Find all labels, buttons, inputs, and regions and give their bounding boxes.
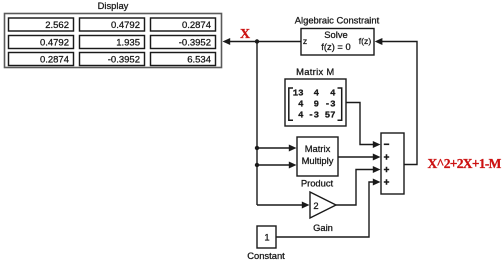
svg-text:z: z: [303, 36, 307, 46]
svg-text:0.4792: 0.4792: [40, 38, 69, 49]
svg-text:Algebraic Constraint: Algebraic Constraint: [295, 15, 380, 26]
svg-text:57: 57: [325, 110, 336, 120]
svg-text:X^2+2X+1-M: X^2+2X+1-M: [428, 156, 502, 171]
svg-text:4: 4: [314, 89, 320, 99]
svg-text:f(z) = 0: f(z) = 0: [321, 41, 350, 52]
svg-text:1: 1: [264, 232, 269, 243]
svg-text:Constant: Constant: [247, 250, 285, 261]
svg-text:-0.3952: -0.3952: [108, 55, 140, 66]
svg-text:Product: Product: [301, 178, 334, 189]
svg-text:0.2874: 0.2874: [40, 55, 69, 66]
svg-text:2.562: 2.562: [45, 20, 69, 31]
svg-text:1.935: 1.935: [116, 38, 140, 49]
svg-text:Multiply: Multiply: [302, 155, 334, 166]
svg-text:0.2874: 0.2874: [182, 20, 211, 31]
svg-text:13: 13: [293, 89, 304, 99]
svg-text:4: 4: [330, 89, 336, 99]
svg-text:4: 4: [298, 100, 304, 110]
svg-text:-0.3952: -0.3952: [179, 38, 211, 49]
svg-text:X: X: [240, 27, 250, 42]
svg-text:9: 9: [314, 100, 319, 110]
svg-text:-3: -3: [325, 100, 336, 110]
svg-text:0.4792: 0.4792: [111, 20, 140, 31]
svg-text:Display: Display: [98, 0, 129, 11]
svg-text:Gain: Gain: [313, 222, 333, 233]
svg-text:6.534: 6.534: [187, 55, 211, 66]
svg-text:Solve: Solve: [324, 29, 347, 40]
svg-text:f(z): f(z): [359, 36, 372, 46]
svg-text:-3: -3: [308, 110, 319, 120]
svg-text:2: 2: [313, 200, 318, 211]
svg-text:4: 4: [298, 110, 304, 120]
svg-text:Matrix: Matrix: [305, 143, 331, 154]
svg-text:Matrix M: Matrix M: [296, 66, 334, 77]
